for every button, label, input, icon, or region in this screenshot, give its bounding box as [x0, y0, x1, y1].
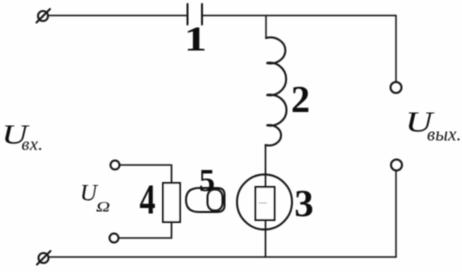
capacitor 1 (right plate)	[201, 4, 203, 25]
output terminal lower	[391, 160, 402, 171]
input terminal bottom-left (chassis/open terminal)	[37, 251, 51, 265]
wire: inductor 2 to lamp 3	[265, 145, 267, 188]
resistor 4	[163, 183, 180, 222]
svg-text:вых.: вых.	[427, 126, 462, 146]
wire: lamp 3 to bottom wire	[265, 220, 267, 257]
svg-text:1: 1	[184, 19, 207, 58]
U_Omega terminal upper	[111, 161, 120, 170]
wire: lower output terminal to bottom wire	[395, 171, 397, 258]
bottom wire	[49, 256, 397, 258]
wire: capacitor 1 to top-right corner	[202, 15, 396, 17]
input terminal top-left (chassis/open terminal)	[37, 9, 51, 23]
heater 5 body (cylinder outline)	[186, 188, 225, 212]
svg-text:2: 2	[291, 79, 310, 121]
inductor 2	[266, 37, 287, 145]
wire: right vertical from top wire to output terminal	[395, 16, 397, 83]
wire: top-left terminal to capacitor 1	[48, 15, 187, 17]
svg-text:Ω: Ω	[96, 199, 110, 215]
wire: upper U_Omega terminal to resistor 4	[120, 165, 172, 183]
thermistor 3 envelope (circle)	[237, 175, 292, 230]
output terminal upper	[391, 82, 402, 93]
faint mark inside thermistor body	[259, 202, 267, 204]
svg-text:4: 4	[140, 177, 156, 224]
capacitor 1 (left plate)	[187, 4, 189, 25]
wire: branch from top wire down to inductor 2	[265, 16, 267, 39]
svg-text:3: 3	[294, 183, 313, 225]
svg-text:5: 5	[199, 162, 215, 198]
heater 5 end cap (ellipse face)	[208, 190, 223, 211]
svg-text:вх.: вх.	[22, 134, 44, 154]
thermistor 3 body (rectangle)	[256, 187, 275, 220]
U_Omega terminal lower	[110, 234, 119, 243]
wire: resistor 4 to lower U_Omega terminal	[119, 222, 172, 238]
